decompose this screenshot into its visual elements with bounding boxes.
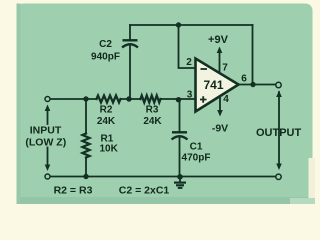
wire between R2 and R3 (121, 98, 141, 100)
capacitor C1 (172, 132, 188, 139)
svg-text:470pF: 470pF (182, 153, 211, 164)
svg-text:4: 4 (223, 94, 229, 105)
svg-text:940pF: 940pF (91, 52, 120, 63)
svg-text:3: 3 (187, 90, 193, 101)
wire C2 bottom lead (129, 46, 131, 99)
svg-text:10K: 10K (100, 144, 119, 155)
svg-text:6: 6 (241, 74, 247, 85)
bottom-right light patch (290, 198, 315, 204)
svg-text:741: 741 (203, 78, 223, 92)
svg-text:R2: R2 (100, 105, 113, 116)
wire C2 top lead (129, 25, 131, 40)
svg-text:-9V: -9V (212, 123, 228, 135)
terminal input top (45, 97, 50, 102)
svg-text:OUTPUT: OUTPUT (256, 127, 302, 139)
wire R3 to pin3 (161, 98, 196, 100)
svg-text:+9V: +9V (208, 34, 229, 46)
junction dot R1 top (83, 96, 88, 101)
panel bottom shade (17, 197, 313, 204)
wire input arrow upper shaft (47, 110, 49, 125)
junction dot pin6 (250, 82, 255, 87)
wire pin7 (219, 51, 221, 73)
wire R1 bottom lead (85, 158, 87, 177)
svg-text:2: 2 (186, 57, 192, 68)
svg-text:INPUT: INPUT (30, 125, 62, 137)
svg-text:7: 7 (222, 63, 228, 74)
wire feedback right vertical (252, 25, 254, 85)
wire pin2 L-shape (179, 25, 196, 68)
svg-text:(LOW Z): (LOW Z) (25, 137, 66, 149)
op-amp minus sign (201, 68, 208, 70)
wire main input line segment A (51, 98, 97, 100)
arrowhead input upper (up) (45, 105, 51, 112)
wire R1 top lead (85, 99, 87, 134)
arrowhead input lower (down) (45, 165, 51, 172)
wire top feedback horizontal (130, 24, 253, 26)
svg-text:24K: 24K (97, 116, 116, 127)
arrowhead output lower (down) (276, 164, 282, 171)
wire C1 bottom lead (179, 138, 181, 177)
panel left shade (17, 4, 21, 205)
wire output arrow shaft (278, 92, 280, 165)
terminal input bottom (45, 174, 50, 179)
svg-text:C1: C1 (190, 142, 203, 153)
junction dot R1 bottom (83, 174, 88, 179)
resistor R3 (141, 96, 161, 103)
arrowhead output upper (up) (276, 91, 282, 98)
svg-text:C2 = 2xC1: C2 = 2xC1 (119, 185, 170, 197)
wire pin4 (219, 97, 221, 113)
arrowhead +9V up (217, 47, 223, 54)
arrowhead -9V down (217, 110, 223, 117)
wire bottom line (51, 176, 276, 178)
svg-text:24K: 24K (143, 116, 162, 127)
green panel (17, 4, 313, 208)
wire C1 top lead (179, 100, 181, 132)
junction dot pin3 (176, 97, 181, 102)
right cream wedge lower (309, 158, 316, 198)
svg-text:C2: C2 (99, 39, 112, 50)
op-amp plus sign (200, 96, 207, 103)
ground (174, 177, 186, 188)
terminal output top (276, 82, 281, 87)
junction dot ground (177, 174, 183, 180)
junction dot C2 bottom (126, 96, 131, 101)
op-amp U1 triangle (196, 59, 239, 112)
junction dot top (176, 22, 181, 27)
wire input arrow lower shaft (47, 148, 49, 166)
capacitor C2 (122, 40, 138, 47)
svg-text:R3: R3 (146, 105, 159, 116)
wire pin6 output (239, 84, 276, 86)
resistor R2 (97, 96, 121, 103)
resistor R1 (83, 134, 90, 158)
terminal output bottom (276, 174, 281, 179)
svg-text:R2 = R3: R2 = R3 (54, 185, 93, 197)
